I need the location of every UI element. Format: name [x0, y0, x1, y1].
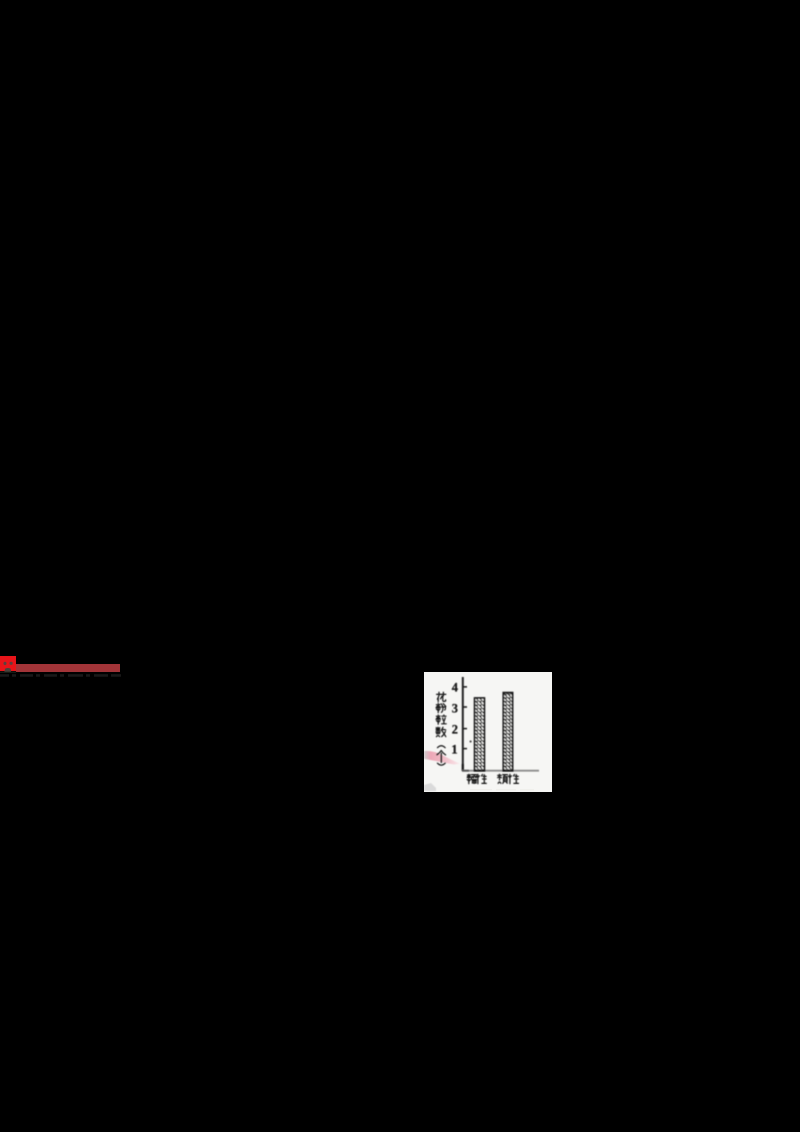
- svg-text:4: 4: [452, 681, 458, 695]
- svg-text:1: 1: [451, 743, 457, 757]
- svg-text:2: 2: [452, 722, 458, 736]
- svg-text:3: 3: [452, 702, 458, 716]
